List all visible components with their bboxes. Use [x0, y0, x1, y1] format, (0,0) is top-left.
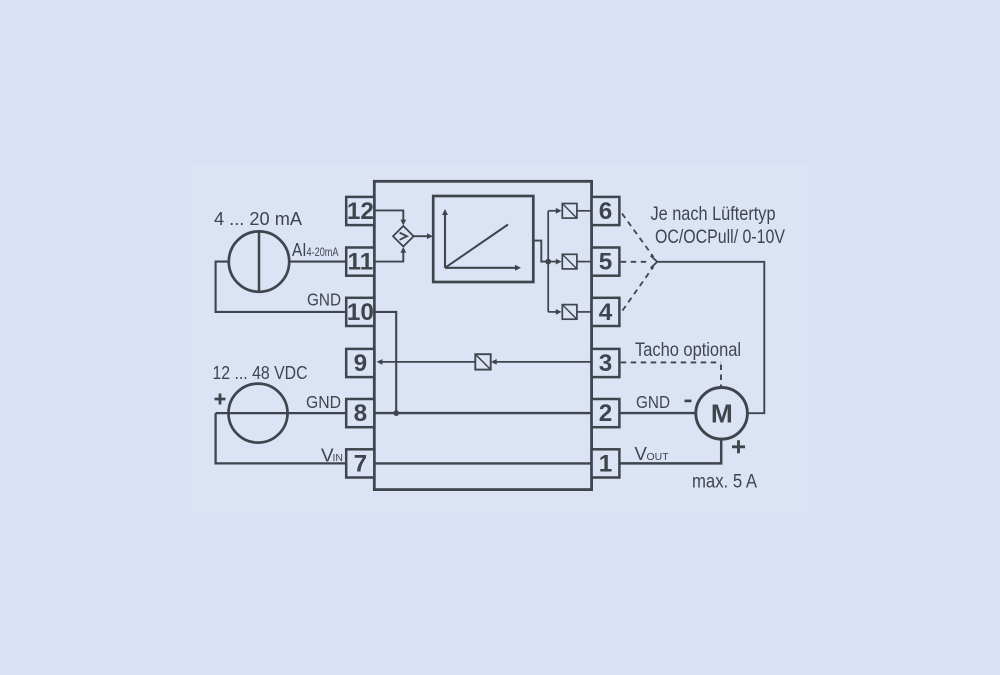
pin 1	[592, 449, 620, 477]
wire tacho driver to pin9	[382, 361, 475, 363]
svg-text:6: 6	[599, 198, 613, 225]
svg-text:8: 8	[354, 400, 368, 427]
current source circle 4-20mA	[229, 231, 289, 291]
pin 6	[592, 197, 620, 225]
svg-text:2: 2	[599, 400, 613, 427]
curve x-axis	[445, 267, 517, 269]
svg-text:3: 3	[599, 350, 613, 377]
wire pin12 to comparator	[374, 210, 403, 221]
branch wire to driver 6	[548, 210, 556, 212]
svg-text:12 ... 48 VDC: 12 ... 48 VDC	[213, 363, 308, 383]
pin 8	[346, 399, 374, 427]
wire pin1 to motor plus (VOUT)	[619, 439, 721, 463]
svg-text:IN: IN	[333, 452, 344, 464]
plus sign motor	[732, 440, 745, 453]
svg-text:M: M	[711, 399, 733, 429]
branch wire to driver 4	[548, 311, 556, 313]
svg-text:Tacho optional: Tacho optional	[635, 339, 741, 361]
voltage source circle 12-48VDC	[229, 384, 288, 443]
wire voltage source to pin8 (through circle)	[216, 412, 347, 414]
wire current source to pin11	[289, 261, 346, 263]
svg-text:GND: GND	[307, 290, 341, 310]
wire pin2 to motor (GND)	[619, 412, 695, 414]
wire comparator to curve block	[414, 235, 429, 237]
svg-text:GND: GND	[306, 392, 341, 412]
minus sign motor	[685, 400, 692, 403]
svg-text:12: 12	[347, 198, 374, 225]
svg-text:11: 11	[348, 249, 374, 276]
svg-text:4: 4	[599, 299, 613, 326]
diagram image background panel	[193, 164, 808, 512]
junction dot split node	[545, 259, 551, 265]
wire pin11 to comparator	[374, 251, 403, 261]
tacho input driver	[475, 354, 490, 369]
pin 11	[346, 248, 374, 276]
wire voltage source plus to pin7	[216, 413, 347, 463]
svg-text:4 ... 20 mA: 4 ... 20 mA	[214, 208, 303, 229]
dashed tacho wire pin3 to motor	[621, 361, 721, 363]
pin 12	[346, 197, 374, 225]
curve ramp line	[445, 225, 508, 268]
svg-text:10: 10	[347, 299, 374, 326]
svg-text:1: 1	[599, 451, 613, 478]
selector arrow chevron	[651, 256, 658, 268]
pin 7	[346, 449, 374, 477]
wire selector to motor	[657, 262, 764, 413]
svg-text:4-20mA: 4-20mA	[307, 247, 339, 259]
curve y-axis	[444, 214, 446, 268]
wire pin10 to GND rail	[374, 312, 396, 413]
svg-text:OC/OCPull/ 0-10V: OC/OCPull/ 0-10V	[655, 226, 786, 248]
pin 3	[592, 349, 620, 377]
junction dot at GND rail	[393, 410, 399, 416]
comparator diamond	[393, 226, 414, 247]
plus sign voltage source	[215, 394, 226, 405]
output driver for pin 6	[562, 204, 577, 219]
wire current source return to pin10	[216, 262, 347, 312]
split node vertical bus	[547, 211, 549, 312]
wire pin7 to pin1 (VIN to VOUT rail)	[374, 462, 591, 464]
transfer-curve block	[433, 196, 533, 282]
dashed line pin4 to selector	[623, 267, 654, 311]
dashed line pin5 to selector	[621, 261, 647, 263]
pin 4	[592, 298, 620, 326]
comparator > symbol	[400, 233, 407, 240]
pin 10	[346, 298, 374, 326]
svg-text:GND: GND	[636, 392, 670, 412]
svg-text:OUT: OUT	[647, 451, 670, 463]
svg-text:AI: AI	[292, 239, 307, 260]
svg-text:max. 5 A: max. 5 A	[692, 471, 757, 493]
motor circle M1	[696, 388, 748, 440]
branch wire to driver 5	[548, 261, 556, 263]
wire curve block output to split node	[533, 241, 548, 262]
svg-text:Je nach Lüftertyp: Je nach Lüftertyp	[651, 203, 776, 225]
wire pin3 to tacho driver	[496, 361, 591, 363]
pin 5	[592, 248, 620, 276]
IC outline U1	[374, 181, 591, 489]
svg-text:5: 5	[599, 249, 613, 276]
output driver for pin 4	[562, 305, 577, 320]
output driver for pin 5	[562, 254, 577, 269]
svg-text:9: 9	[354, 350, 368, 377]
wire pin8 to pin2 (GND rail through IC)	[374, 412, 591, 414]
pin 2	[592, 399, 620, 427]
svg-text:7: 7	[354, 451, 368, 478]
dashed line pin6 to selector	[622, 214, 654, 258]
current source vertical bar	[258, 231, 261, 291]
pin 9	[346, 349, 374, 377]
